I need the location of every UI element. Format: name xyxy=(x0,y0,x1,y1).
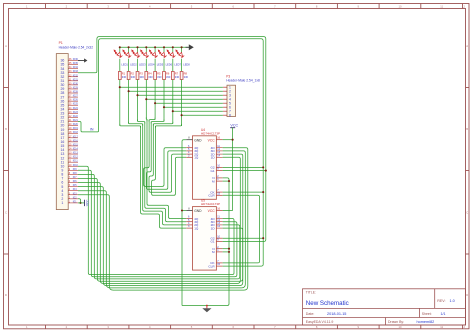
wire bus line 7 to P3 pin 7 xyxy=(173,110,223,112)
wire P1 pin 9 to latch D input xyxy=(78,170,237,276)
svg-text:9: 9 xyxy=(61,169,63,173)
IC U4 HD74HC173P 4-bit D register xyxy=(186,128,222,200)
svg-text:10: 10 xyxy=(399,325,402,329)
junction bus1 xyxy=(119,86,121,88)
svg-text:LED2: LED2 xyxy=(130,62,137,66)
svg-text:29: 29 xyxy=(60,87,64,91)
wire P1 pin 8 to latch D input xyxy=(78,174,240,279)
wire LED3 cathode to R3 xyxy=(137,59,139,72)
resistor R4 xyxy=(145,72,153,80)
svg-text:R8: R8 xyxy=(184,72,188,76)
wire Q3 bundle to U4 pin xyxy=(146,122,186,190)
LED LED4 xyxy=(141,47,155,66)
svg-text:17: 17 xyxy=(60,136,64,140)
svg-text:IO32: IO32 xyxy=(73,75,79,77)
svg-text:R2: R2 xyxy=(131,72,135,76)
svg-text:VCC: VCC xyxy=(208,138,216,142)
wire bus line 4 to P3 pin 4 xyxy=(146,98,223,100)
svg-text:IO21: IO21 xyxy=(73,120,79,122)
wire P1 pin 10 to latch D input xyxy=(78,166,234,274)
junction P1 VCC tie xyxy=(79,202,81,204)
junction bus2 xyxy=(128,90,130,92)
wire U4 CLR to U5 CK xyxy=(223,195,260,263)
svg-text:7: 7 xyxy=(61,177,63,181)
svg-text:21: 21 xyxy=(60,120,64,124)
svg-text:10: 10 xyxy=(60,164,64,168)
svg-text:G1: G1 xyxy=(210,169,214,173)
wire LED4 cathode to R4 xyxy=(145,59,147,72)
svg-text:New Schematic: New Schematic xyxy=(306,300,349,307)
wire fan col1 into bundle xyxy=(120,124,141,128)
svg-text:15: 15 xyxy=(60,144,64,148)
svg-text:IO29: IO29 xyxy=(73,87,79,89)
junction U5-G2 xyxy=(262,237,264,239)
wire P1 pin1 to VCC flag xyxy=(78,202,85,204)
LED LED5 xyxy=(149,47,163,66)
junction rail-LED2 xyxy=(128,46,130,48)
svg-text:R1: R1 xyxy=(122,72,126,76)
svg-text:CLR: CLR xyxy=(208,194,215,198)
svg-text:LED6: LED6 xyxy=(166,62,173,66)
svg-text:IO24: IO24 xyxy=(73,108,79,110)
wire P1 pin 3 to latch D input xyxy=(78,148,248,290)
svg-text:3: 3 xyxy=(61,193,63,197)
svg-text:10: 10 xyxy=(399,4,402,8)
resistor R6 xyxy=(163,72,171,80)
junction rail-LED8 xyxy=(181,46,183,48)
svg-text:CLR: CLR xyxy=(208,264,215,268)
wire P1 pin21 IN loop to U5 CLR xyxy=(78,39,263,266)
svg-text:8: 8 xyxy=(229,113,231,117)
svg-text:IO25: IO25 xyxy=(73,104,79,106)
wire R1 down xyxy=(119,80,121,126)
wire R6 down xyxy=(163,80,165,122)
wire Q1 bundle to U5 pin xyxy=(141,126,187,228)
svg-text:VCC: VCC xyxy=(208,209,216,213)
svg-text:1Q: 1Q xyxy=(194,226,199,230)
svg-text:30: 30 xyxy=(60,83,64,87)
wire U4 GND down to rail xyxy=(182,140,186,306)
svg-text:6: 6 xyxy=(61,181,63,185)
wire R2 down xyxy=(128,80,130,124)
svg-text:32: 32 xyxy=(60,75,64,79)
svg-text:EasyEDA V4.11.9: EasyEDA V4.11.9 xyxy=(306,320,334,324)
svg-text:REV:: REV: xyxy=(437,299,445,303)
svg-text:R5: R5 xyxy=(157,72,161,76)
svg-text:1.0: 1.0 xyxy=(450,299,455,303)
resistor R2 xyxy=(127,72,135,80)
svg-text:HD74HC173P: HD74HC173P xyxy=(201,131,220,135)
ground symbol xyxy=(202,305,211,313)
svg-text:5: 5 xyxy=(61,185,63,189)
svg-text:GND: GND xyxy=(194,209,202,213)
wire P1 pin 6 to latch D input xyxy=(78,157,240,283)
wire P1 pin2 to VCC tie xyxy=(78,199,81,203)
svg-text:2: 2 xyxy=(61,197,63,201)
svg-text:C: C xyxy=(5,211,7,215)
svg-text:1/1: 1/1 xyxy=(441,312,446,316)
power flag VCC (P1) xyxy=(85,199,90,206)
svg-text:19: 19 xyxy=(60,128,64,132)
wire R5 down xyxy=(154,80,156,120)
junction U4-VCC xyxy=(232,139,234,141)
svg-text:18: 18 xyxy=(60,132,64,136)
svg-text:IO20: IO20 xyxy=(73,124,79,126)
junction bus4 xyxy=(145,98,147,100)
wire R4 down xyxy=(145,80,147,120)
svg-text:IO27: IO27 xyxy=(73,96,79,98)
svg-text:330: 330 xyxy=(148,75,153,79)
junction bus6 xyxy=(163,106,165,108)
wire R3 down xyxy=(137,80,139,122)
svg-text:B: B xyxy=(5,127,7,131)
wire fan col2 into bundle xyxy=(129,122,143,126)
svg-text:IO33: IO33 xyxy=(73,71,79,73)
svg-text:27: 27 xyxy=(60,95,64,99)
wire fan col8 into bundle xyxy=(155,124,181,128)
svg-text:330: 330 xyxy=(175,75,180,79)
junction rail-LED1 xyxy=(119,46,121,48)
svg-text:25: 25 xyxy=(60,103,64,107)
svg-text:31: 31 xyxy=(60,79,64,83)
wire bus line 1 to P3 pin 1 xyxy=(120,86,223,88)
junction U4-G1 xyxy=(265,170,267,172)
svg-text:R4: R4 xyxy=(148,72,152,76)
junction U4-CK xyxy=(262,191,264,193)
svg-text:Sheet:: Sheet: xyxy=(422,312,432,316)
junction U5-M xyxy=(228,251,230,253)
resistor R1 xyxy=(118,72,126,80)
svg-text:16: 16 xyxy=(60,140,64,144)
svg-text:LED8: LED8 xyxy=(183,62,190,66)
junction U4-G2 xyxy=(262,166,264,168)
junction rail-LED4 xyxy=(145,46,147,48)
svg-text:LED4: LED4 xyxy=(148,62,155,66)
wire U5 M xyxy=(223,251,229,253)
wire Q2 bundle to U5 pin xyxy=(143,124,187,225)
svg-text:IO12: IO12 xyxy=(73,157,79,159)
svg-text:TITLE:: TITLE: xyxy=(306,291,316,295)
svg-text:IO31: IO31 xyxy=(73,79,79,81)
svg-text:D: D xyxy=(466,293,468,297)
netflag arrow on LED rail xyxy=(186,45,193,49)
wire U4 G1 to loop xyxy=(223,170,266,172)
wire U5 N xyxy=(223,248,229,250)
junction U4-M xyxy=(228,180,230,182)
wire U4 CK to loop xyxy=(223,191,264,193)
svg-text:M: M xyxy=(212,250,215,254)
wire U4 VCC xyxy=(223,139,233,141)
svg-text:IO28: IO28 xyxy=(73,92,79,94)
svg-text:IO30: IO30 xyxy=(73,83,79,85)
svg-text:IO18: IO18 xyxy=(73,132,79,134)
svg-text:C: C xyxy=(466,211,468,215)
svg-text:D: D xyxy=(5,293,7,297)
power flag VCC (latches) xyxy=(230,123,238,127)
wire fan col3 into bundle xyxy=(138,120,145,124)
LED LED2 xyxy=(123,47,137,66)
svg-text:LED7: LED7 xyxy=(174,62,181,66)
svg-text:34: 34 xyxy=(60,67,64,71)
svg-text:HD74HC173P: HD74HC173P xyxy=(201,202,220,206)
svg-text:IO10: IO10 xyxy=(73,165,79,167)
title block xyxy=(303,289,466,325)
wire U4 N/M tie down to ground rail xyxy=(182,178,229,306)
svg-text:330: 330 xyxy=(122,75,127,79)
svg-text:8: 8 xyxy=(61,173,63,177)
svg-text:Header-Male-2.54_2x32: Header-Male-2.54_2x32 xyxy=(59,45,94,49)
svg-text:IO22: IO22 xyxy=(73,116,79,118)
svg-text:23: 23 xyxy=(60,112,64,116)
svg-text:330: 330 xyxy=(139,75,144,79)
wire U4 G2 to loop xyxy=(223,166,264,168)
svg-text:VCC: VCC xyxy=(230,123,238,127)
svg-text:IO13: IO13 xyxy=(73,153,79,155)
connector P1 Header-Male-2.54_2x32 xyxy=(56,41,93,209)
LED LED6 xyxy=(158,47,172,66)
wire LED2 cathode to R2 xyxy=(128,59,130,72)
svg-text:35: 35 xyxy=(60,63,64,67)
svg-text:2018-01-15: 2018-01-15 xyxy=(327,312,346,316)
svg-text:12: 12 xyxy=(462,4,465,8)
wire Q4 bundle to U4 pin xyxy=(144,120,187,187)
wire Q3 bundle to U5 pin xyxy=(145,122,186,222)
wire LED5 cathode to R5 xyxy=(154,59,156,72)
junction bus3 xyxy=(136,94,138,96)
svg-text:330: 330 xyxy=(157,75,162,79)
wire P1 pin33 loop to U5 G1 xyxy=(78,37,266,242)
svg-text:LED5: LED5 xyxy=(157,62,164,66)
LED LED1 xyxy=(114,47,128,66)
svg-text:IO26: IO26 xyxy=(73,100,79,102)
svg-text:IO19: IO19 xyxy=(73,128,79,130)
svg-text:20: 20 xyxy=(60,124,64,128)
wire P1 pin 5 to latch D input xyxy=(78,154,243,286)
svg-text:homemi82: homemi82 xyxy=(417,320,435,324)
svg-text:IO16: IO16 xyxy=(73,140,79,142)
svg-text:330: 330 xyxy=(166,75,171,79)
wire LED1 cathode to R1 xyxy=(119,59,121,72)
wire U5 GND xyxy=(182,210,186,212)
svg-text:11: 11 xyxy=(440,325,443,329)
resistor R8 xyxy=(180,72,188,80)
junction bus7 xyxy=(172,110,174,112)
svg-text:GND: GND xyxy=(194,138,202,142)
svg-text:A: A xyxy=(5,44,7,48)
svg-text:11: 11 xyxy=(61,160,65,164)
LED LED3 xyxy=(132,47,146,66)
svg-text:IO34: IO34 xyxy=(73,67,79,69)
netflag arrow on P1 pin 36 xyxy=(78,58,87,62)
svg-text:R7: R7 xyxy=(175,72,179,76)
junction rail-LED3 xyxy=(136,46,138,48)
wire bus line 8 to P3 pin 8 xyxy=(182,114,223,116)
svg-text:M: M xyxy=(212,179,215,183)
svg-text:1: 1 xyxy=(61,201,63,205)
svg-text:330: 330 xyxy=(184,75,189,79)
wire P1 pin 7 to latch D input xyxy=(78,179,243,282)
svg-text:IO23: IO23 xyxy=(73,112,79,114)
svg-text:33: 33 xyxy=(60,71,64,75)
svg-text:B: B xyxy=(466,127,468,131)
wire LED anode rail xyxy=(120,46,189,48)
svg-text:LED1: LED1 xyxy=(121,62,128,66)
junction rail-LED6 xyxy=(163,46,165,48)
wire U5 VCC xyxy=(223,210,233,212)
svg-text:Date:: Date: xyxy=(306,312,315,316)
svg-text:IO15: IO15 xyxy=(73,144,79,146)
svg-text:VCC: VCC xyxy=(86,199,90,206)
wire bus line 3 to P3 pin 3 xyxy=(138,94,223,96)
svg-text:11: 11 xyxy=(440,4,443,8)
svg-text:R6: R6 xyxy=(166,72,170,76)
svg-text:14: 14 xyxy=(60,148,64,152)
wire LED6 cathode to R6 xyxy=(163,59,165,72)
wire fan col4 into bundle xyxy=(145,117,148,121)
connector P3 Header-Male 2.54_1x8 xyxy=(223,74,260,117)
wire VCC flag down to U4/U5 VCC xyxy=(232,128,234,211)
svg-text:330: 330 xyxy=(131,75,136,79)
svg-text:G1: G1 xyxy=(210,240,214,244)
svg-text:24: 24 xyxy=(60,107,64,111)
svg-text:IO11: IO11 xyxy=(73,161,79,163)
svg-text:Header-Male 2.54_1x8: Header-Male 2.54_1x8 xyxy=(226,79,260,83)
LED LED7 xyxy=(167,47,181,66)
svg-text:LED3: LED3 xyxy=(139,62,146,66)
resistor R7 xyxy=(171,72,179,80)
svg-text:1Q: 1Q xyxy=(194,156,199,160)
svg-text:26: 26 xyxy=(60,99,64,103)
wire Q4 bundle to U5 pin xyxy=(147,119,186,218)
svg-text:A: A xyxy=(466,44,468,48)
resistor R5 xyxy=(154,72,162,80)
wire P1 pin 4 to latch D input xyxy=(78,151,245,288)
wire LED7 cathode to R7 xyxy=(172,59,174,72)
svg-text:Drawn By:: Drawn By: xyxy=(388,320,404,324)
junction rail-LED7 xyxy=(172,46,174,48)
svg-text:28: 28 xyxy=(60,91,64,95)
IC U5 HD74HC173P 4-bit D register xyxy=(186,199,222,271)
wire bus line 2 to P3 pin 2 xyxy=(129,90,223,92)
wire LED8 cathode to R8 xyxy=(181,59,183,72)
LED LED8 xyxy=(176,47,190,66)
wire fan col5 into bundle xyxy=(149,118,155,122)
junction bus5 xyxy=(154,102,156,104)
junction rail-LED5 xyxy=(154,46,156,48)
wire Q2 bundle to U4 pin xyxy=(149,124,186,193)
wire U4 M xyxy=(223,180,229,182)
svg-text:12: 12 xyxy=(60,156,64,160)
wire bus line 6 to P3 pin 6 xyxy=(164,106,223,108)
svg-text:IO36: IO36 xyxy=(73,59,79,61)
svg-text:4: 4 xyxy=(61,189,63,193)
svg-text:R3: R3 xyxy=(139,72,143,76)
wire bus line 5 to P3 pin 5 xyxy=(155,102,223,104)
svg-text:13: 13 xyxy=(60,152,64,156)
junction U5-N xyxy=(228,248,230,250)
svg-text:IO35: IO35 xyxy=(73,63,79,65)
junction U5-GND xyxy=(181,209,183,211)
svg-text:22: 22 xyxy=(60,116,64,120)
svg-text:IO17: IO17 xyxy=(73,136,79,138)
svg-text:IO14: IO14 xyxy=(73,149,79,151)
wire R8 down xyxy=(181,80,183,126)
wire fan col7 into bundle xyxy=(153,122,173,126)
wire fan col6 into bundle xyxy=(151,120,164,124)
wire U5 G2 to loop xyxy=(223,237,264,239)
wire R7 down xyxy=(172,80,174,124)
svg-text:36: 36 xyxy=(60,59,64,63)
svg-text:12: 12 xyxy=(462,325,465,329)
wire Q1 bundle to U4 pin xyxy=(152,126,187,195)
resistor R3 xyxy=(136,72,144,80)
svg-text:IN: IN xyxy=(90,128,94,132)
junction bus8 xyxy=(181,114,183,116)
